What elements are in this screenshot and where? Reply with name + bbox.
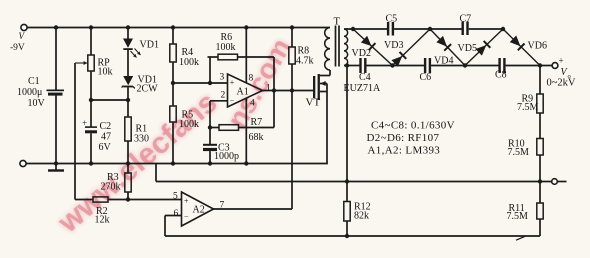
svg-text:+: + [230,78,235,87]
svg-text:+: + [82,118,87,128]
svg-text:4: 4 [250,99,255,109]
svg-text:47: 47 [101,132,111,143]
svg-text:3: 3 [220,73,225,83]
svg-text:EUZ71A: EUZ71A [344,83,381,94]
svg-text:5: 5 [173,192,178,202]
svg-text:VD3: VD3 [384,40,403,51]
svg-text:C2: C2 [100,121,112,132]
svg-text:82k: 82k [354,211,369,222]
svg-text:VD1: VD1 [140,40,159,51]
svg-text:A1: A1 [237,87,249,98]
svg-text:C1: C1 [28,76,40,87]
svg-text:1: 1 [266,84,271,94]
svg-text:68k: 68k [249,132,264,143]
svg-text:C7: C7 [460,14,472,25]
svg-text:0~2kV: 0~2kV [547,78,576,89]
svg-text:VD6: VD6 [528,41,547,52]
svg-text:100k: 100k [216,42,236,53]
svg-text:6V: 6V [99,142,112,153]
svg-text:-9V: -9V [10,43,25,53]
svg-text:7.5M: 7.5M [507,211,529,222]
svg-text:C6: C6 [420,72,432,83]
svg-text:6: 6 [174,209,179,219]
svg-text:7: 7 [220,201,225,211]
svg-text:T: T [334,17,341,28]
svg-text:+: + [184,197,189,206]
svg-text:10k: 10k [98,67,113,78]
svg-text:C5: C5 [386,14,398,25]
svg-text:A1,A2: LM393: A1,A2: LM393 [368,145,441,157]
svg-text:12k: 12k [95,215,110,226]
svg-text:VD2: VD2 [352,48,371,59]
svg-text:V: V [19,31,26,41]
svg-text:1000p: 1000p [214,151,239,162]
svg-text:−: − [184,213,189,222]
svg-text:R7: R7 [251,117,263,128]
svg-text:VD5: VD5 [458,43,477,54]
svg-text:330: 330 [134,134,149,145]
svg-text:VD4: VD4 [434,56,453,67]
svg-text:+: + [559,56,564,66]
svg-text:1000μ: 1000μ [17,87,42,98]
svg-text:A2: A2 [193,205,205,216]
svg-text:10V: 10V [28,98,46,109]
svg-text:C4: C4 [359,72,371,83]
svg-text:100k: 100k [179,119,199,130]
svg-text:VT: VT [306,97,321,109]
svg-text:270k: 270k [101,182,121,193]
svg-text:100k: 100k [179,57,199,68]
svg-text:8: 8 [249,74,254,84]
svg-text:7.5M: 7.5M [517,102,539,113]
svg-text:C8: C8 [495,70,507,81]
svg-text:2CW: 2CW [137,84,159,95]
svg-text:−: − [230,96,235,105]
svg-text:4.7k: 4.7k [296,56,314,67]
svg-text:7.5M: 7.5M [508,147,530,158]
svg-text:D2~D6: RF107: D2~D6: RF107 [367,132,440,144]
svg-text:2: 2 [221,91,226,101]
svg-text:C4~C8: 0.1/630V: C4~C8: 0.1/630V [371,120,455,132]
